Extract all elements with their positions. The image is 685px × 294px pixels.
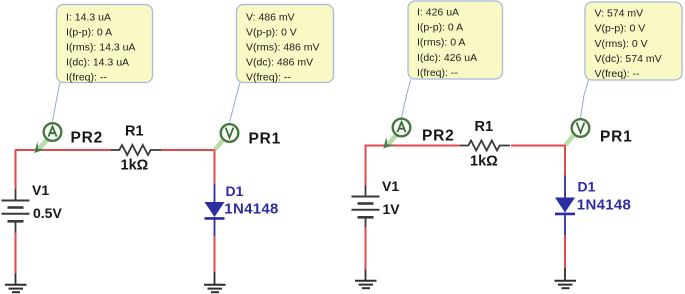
wire diode to ground (right circuit) [564, 235, 566, 269]
wire battery to ground (left circuit) [15, 232, 17, 274]
svg-text:V1: V1 [382, 178, 399, 194]
svg-text:V: 574 mV: V: 574 mV [595, 8, 644, 20]
svg-text:PR1: PR1 [600, 128, 633, 145]
wire left vertical battery top (right circuit) [365, 145, 367, 186]
leader line callout to probe PR1 (left) [230, 83, 241, 123]
wire node B down to diode (left circuit) [214, 149, 216, 184]
wire top-left to resistor (right circuit) [366, 145, 461, 147]
callout box probe PR1 (left) [237, 5, 334, 84]
svg-text:V(p-p): 0 V: V(p-p): 0 V [595, 23, 646, 35]
svg-text:I(freq): --: I(freq): -- [66, 72, 107, 84]
voltage probe PR1 (right): stick [566, 136, 574, 145]
wire top-left to resistor (left circuit) [16, 149, 112, 151]
resistor R1 (left) [111, 145, 161, 155]
svg-text:V(p-p): 0 V: V(p-p): 0 V [246, 26, 297, 38]
svg-text:V(rms): 486 mV: V(rms): 486 mV [246, 42, 320, 54]
svg-text:V(dc): 486 mV: V(dc): 486 mV [246, 57, 313, 69]
resistor R1 (right) [460, 141, 510, 151]
svg-text:V(dc): 574 mV: V(dc): 574 mV [595, 53, 662, 65]
leader line callout to probe PR2 (right) [402, 79, 412, 118]
wire left vertical battery top (left circuit) [15, 149, 17, 189]
svg-text:I(rms): 14.3 uA: I(rms): 14.3 uA [66, 42, 135, 54]
diode D1 (right) [555, 176, 575, 236]
voltage probe PR1 (left): stick [215, 141, 222, 150]
svg-text:1kΩ: 1kΩ [121, 158, 149, 174]
svg-text:D1: D1 [578, 179, 596, 195]
svg-text:I(dc): 14.3 uA: I(dc): 14.3 uA [66, 57, 129, 69]
svg-text:1N4148: 1N4148 [224, 201, 278, 218]
callout box probe PR2 (right) [408, 1, 503, 79]
svg-text:R1: R1 [125, 124, 144, 140]
svg-text:PR1: PR1 [249, 131, 282, 148]
wire resistor to node D (right circuit) [511, 145, 566, 147]
current probe PR2 (right): arrow [383, 135, 396, 149]
leader line callout to probe PR1 (right) [581, 80, 589, 118]
svg-text:0.5V: 0.5V [33, 205, 62, 221]
diode D1 (left) [205, 184, 225, 236]
svg-text:1V: 1V [383, 201, 401, 217]
voltage probe PR1 (right): circle V [572, 119, 590, 137]
voltage probe PR1 (left): circle V [221, 124, 239, 142]
ground (left circuit diode) [204, 272, 226, 292]
svg-text:I: 426 uA: I: 426 uA [417, 7, 459, 19]
callout box probe PR1 (right) [585, 2, 682, 80]
svg-text:1N4148: 1N4148 [577, 197, 631, 214]
current probe PR2 (right): circle A [393, 119, 411, 137]
svg-text:I(rms): 0 A: I(rms): 0 A [417, 37, 465, 49]
leader line callout to probe PR2 (left) [53, 83, 61, 122]
svg-text:I(p-p): 0 A: I(p-p): 0 A [66, 26, 112, 38]
callout box probe PR2 (left) [57, 5, 153, 84]
svg-text:PR2: PR2 [422, 127, 455, 144]
svg-text:V1: V1 [32, 182, 49, 198]
current probe PR2 (left): circle A [44, 123, 62, 141]
wire node D down to diode (right circuit) [564, 145, 566, 176]
svg-text:I(dc): 426 uA: I(dc): 426 uA [417, 52, 477, 64]
svg-text:1kΩ: 1kΩ [470, 154, 498, 170]
svg-text:D1: D1 [226, 183, 244, 199]
svg-text:V(rms): 0 V: V(rms): 0 V [595, 38, 648, 50]
svg-text:I(freq): --: I(freq): -- [417, 67, 458, 79]
battery V1 (left) [2, 189, 30, 233]
svg-text:V: 486 mV: V: 486 mV [246, 11, 295, 23]
current probe PR2 (left): arrow [34, 140, 47, 154]
svg-text:R1: R1 [475, 119, 494, 135]
wire diode to ground (left circuit) [214, 236, 216, 273]
battery V1 (right) [352, 186, 380, 228]
ground (left circuit battery) [5, 274, 27, 293]
svg-text:PR2: PR2 [71, 129, 104, 146]
ground (right circuit diode) [555, 268, 577, 288]
wire battery to ground (right circuit) [365, 227, 367, 271]
svg-text:I(p-p): 0 A: I(p-p): 0 A [417, 22, 463, 34]
wire resistor to node B (left circuit) [161, 149, 215, 151]
svg-text:I: 14.3 uA: I: 14.3 uA [66, 11, 111, 23]
svg-text:V(freq): --: V(freq): -- [595, 68, 640, 80]
svg-text:V(freq): --: V(freq): -- [246, 72, 291, 84]
ground (right circuit battery) [355, 270, 377, 289]
